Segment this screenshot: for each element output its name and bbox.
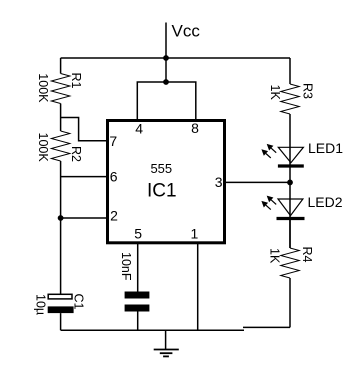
junction dot pin 2 node — [58, 215, 64, 221]
svg-text:6: 6 — [110, 168, 118, 184]
Vcc label — [172, 22, 201, 41]
op-amp/timer IC1 box — [108, 121, 225, 243]
resistor R4 value label 1K — [268, 248, 282, 264]
wire bottom rail left — [61, 329, 244, 331]
resistor R3 name label — [301, 83, 315, 99]
wire Vcc rail to R1 — [60, 58, 62, 74]
pin 2 label — [110, 208, 118, 224]
wire top Vcc rail — [61, 57, 290, 59]
LED1 — [261, 144, 303, 166]
LED2 — [261, 196, 304, 219]
capacitor C1 top plate — [48, 294, 72, 299]
ground — [154, 330, 179, 356]
pin 1 label — [191, 226, 199, 242]
resistor R1 value label 100K — [36, 73, 50, 103]
resistor R3 value label 1K — [268, 85, 282, 101]
svg-text:555: 555 — [150, 161, 172, 176]
wire C2 to bottom rail — [137, 312, 139, 331]
capacitor C2 bottom plate — [125, 305, 150, 312]
wire bottom rail right — [243, 326, 290, 328]
svg-text:LED1: LED1 — [308, 140, 343, 156]
svg-text:IC1: IC1 — [147, 180, 177, 201]
wire pin 5 to C2 — [137, 244, 139, 292]
pin 8 label — [191, 120, 199, 136]
wire LED2 to R4 — [289, 220, 291, 248]
LED1 label — [308, 140, 343, 156]
svg-text:10µ: 10µ — [34, 294, 48, 315]
capacitor C1 value label 10u — [34, 294, 48, 315]
capacitor C1 name label — [72, 294, 86, 310]
pin 7 label — [109, 133, 117, 149]
resistor R3 — [281, 84, 300, 114]
pin 3 label — [215, 174, 223, 190]
svg-text:C1: C1 — [72, 294, 86, 310]
wire R4 to bottom rail — [289, 278, 291, 327]
svg-text:4: 4 — [135, 120, 143, 136]
junction dot pin 3 node — [287, 180, 293, 186]
svg-text:R3: R3 — [301, 83, 315, 99]
resistor R1 — [51, 74, 70, 104]
wire Vcc rail to R3 — [289, 58, 291, 84]
svg-text:1K: 1K — [268, 85, 282, 101]
resistor R4 — [281, 248, 300, 278]
pin 4 label — [135, 120, 143, 136]
resistor R1 name label — [69, 73, 83, 89]
resistor R2 — [51, 131, 70, 161]
svg-text:2: 2 — [110, 208, 118, 224]
svg-text:R1: R1 — [69, 73, 83, 89]
wire pin 3 — [226, 181, 290, 183]
junction dot Vcc rail — [163, 55, 169, 61]
svg-text:LED2: LED2 — [308, 194, 343, 210]
pin 6 label — [110, 168, 118, 184]
svg-text:R4: R4 — [300, 247, 314, 263]
LED2 label — [308, 194, 343, 210]
capacitor C2 value label 10nF — [119, 252, 133, 281]
wire pin4-pin8 loop — [137, 82, 196, 120]
IC1 value label 555 — [150, 161, 172, 176]
wire node to pin 7 — [61, 118, 107, 141]
svg-text:R2: R2 — [69, 146, 83, 162]
Vcc power stem — [165, 23, 167, 83]
junction dot pin4-pin8 loop — [163, 79, 169, 85]
svg-text:3: 3 — [215, 174, 223, 190]
resistor R2 value label 100K — [36, 133, 50, 163]
capacitor C1 bottom plate — [48, 306, 74, 313]
pin 5 label — [134, 226, 142, 242]
wire R1 to R2 — [60, 104, 62, 132]
svg-text:100K: 100K — [36, 133, 50, 163]
IC1 name label — [147, 180, 177, 201]
resistor R2 name label — [69, 146, 83, 162]
svg-text:1K: 1K — [268, 248, 282, 264]
svg-text:8: 8 — [191, 120, 199, 136]
svg-text:10nF: 10nF — [119, 252, 133, 281]
wire to pin 6 — [61, 176, 107, 178]
wire pin 1 to bottom rail — [197, 244, 199, 330]
svg-text:100K: 100K — [36, 73, 50, 103]
capacitor C2 top plate — [125, 292, 150, 299]
svg-text:1: 1 — [191, 226, 199, 242]
resistor R4 name label — [300, 247, 314, 263]
wire R3 to LED1 and through to R4 — [289, 114, 291, 248]
wire R2 down to C1 — [60, 161, 62, 294]
svg-text:Vcc: Vcc — [172, 22, 201, 41]
svg-text:5: 5 — [134, 226, 142, 242]
wire to pin 2 — [61, 217, 107, 219]
svg-text:7: 7 — [109, 133, 117, 149]
wire C1 to bottom rail — [60, 313, 62, 330]
